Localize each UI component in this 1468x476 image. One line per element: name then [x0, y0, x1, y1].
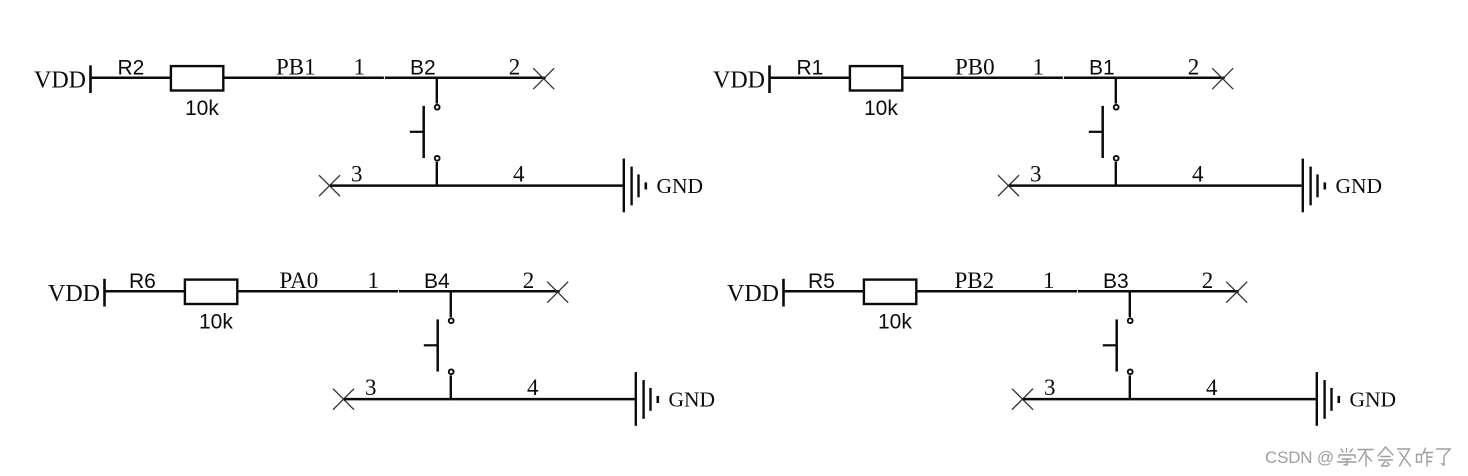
- no-connect X on B3 pin 2: [1226, 282, 1247, 303]
- bottom wire B4 pin 3/4 to GND: [344, 398, 635, 401]
- ground symbol GND (circuit 3): [636, 372, 658, 426]
- svg-text:4: 4: [513, 161, 525, 186]
- watermark CSDN @学不会又咋了: [1265, 447, 1450, 467]
- svg-text:10k: 10k: [199, 310, 233, 333]
- svg-text:B4: B4: [424, 270, 450, 293]
- svg-text:GND: GND: [657, 174, 704, 198]
- svg-text:3: 3: [1030, 161, 1042, 186]
- wire R1 to B1 pin 1, net PB0: [903, 76, 1225, 79]
- svg-text:10k: 10k: [878, 310, 912, 333]
- wire B2 lower terminal to bottom net: [436, 162, 438, 187]
- no-connect X on B2 pin 3: [319, 175, 340, 196]
- wire junction to B4 upper terminal: [450, 291, 452, 317]
- svg-text:4: 4: [527, 375, 539, 400]
- svg-text:2: 2: [509, 54, 521, 79]
- ground symbol GND (circuit 1): [624, 159, 646, 213]
- svg-text:R2: R2: [118, 56, 145, 79]
- svg-text:B2: B2: [410, 56, 436, 79]
- svg-text:R6: R6: [129, 270, 156, 293]
- svg-text:GND: GND: [669, 387, 716, 411]
- svg-text:1: 1: [354, 54, 366, 79]
- wire B3 lower terminal to bottom net: [1129, 375, 1131, 400]
- svg-text:CSDN @: CSDN @: [1265, 448, 1334, 467]
- wire junction to B2 upper terminal: [436, 78, 438, 104]
- svg-text:4: 4: [1192, 161, 1204, 186]
- no-connect X on B4 pin 2: [547, 282, 568, 303]
- power port VDD (circuit 3): [48, 279, 105, 307]
- svg-text:3: 3: [1044, 375, 1056, 400]
- svg-text:VDD: VDD: [713, 67, 765, 93]
- svg-text:PA0: PA0: [280, 268, 319, 293]
- svg-text:VDD: VDD: [727, 281, 779, 307]
- resistor R1 10k: [850, 66, 902, 90]
- wire junction to B3 upper terminal: [1129, 291, 1131, 317]
- pushbutton B3: [1103, 318, 1133, 374]
- svg-text:1: 1: [368, 268, 380, 293]
- svg-text:10k: 10k: [185, 97, 219, 120]
- wire R2 to B2 pin 1, net PB1: [224, 76, 546, 79]
- wire VDD to R6: [106, 290, 185, 293]
- wire VDD to R2: [92, 76, 171, 79]
- no-connect X on B1 pin 2: [1212, 68, 1233, 89]
- no-connect X on B3 pin 3: [1012, 389, 1033, 410]
- ground symbol GND (circuit 2): [1303, 159, 1325, 213]
- pushbutton B4: [424, 318, 454, 374]
- resistor R6 10k: [185, 280, 237, 304]
- svg-text:R5: R5: [808, 270, 835, 293]
- svg-text:2: 2: [523, 268, 535, 293]
- svg-text:1: 1: [1033, 54, 1045, 79]
- svg-text:PB2: PB2: [955, 268, 995, 293]
- bottom wire B2 pin 3/4 to GND: [330, 184, 623, 187]
- resistor R5 10k: [864, 280, 916, 304]
- ground symbol GND (circuit 4): [1317, 372, 1339, 426]
- power port VDD (circuit 1): [34, 65, 91, 93]
- svg-text:VDD: VDD: [48, 281, 100, 307]
- wire R5 to B3 pin 1, net PB2: [917, 290, 1239, 293]
- wire B4 lower terminal to bottom net: [450, 375, 452, 400]
- svg-text:2: 2: [1202, 268, 1214, 293]
- wire R6 to B4 pin 1, net PA0: [238, 290, 560, 293]
- svg-text:PB0: PB0: [955, 54, 995, 79]
- power port VDD (circuit 4): [727, 279, 784, 307]
- no-connect X on B2 pin 2: [533, 68, 554, 89]
- svg-text:GND: GND: [1350, 387, 1397, 411]
- svg-text:R1: R1: [797, 56, 824, 79]
- svg-text:GND: GND: [1336, 174, 1383, 198]
- resistor R2 10k: [171, 66, 223, 90]
- wire junction to B1 upper terminal: [1115, 78, 1117, 104]
- no-connect X on B1 pin 3: [998, 175, 1019, 196]
- wire VDD to R1: [771, 76, 850, 79]
- wire B1 lower terminal to bottom net: [1115, 162, 1117, 187]
- svg-text:1: 1: [1043, 268, 1055, 293]
- svg-text:2: 2: [1188, 54, 1200, 79]
- svg-text:3: 3: [351, 161, 363, 186]
- pushbutton B2: [410, 105, 440, 161]
- svg-text:PB1: PB1: [276, 54, 316, 79]
- svg-text:VDD: VDD: [34, 67, 86, 93]
- svg-text:B1: B1: [1089, 56, 1115, 79]
- pushbutton B1: [1089, 105, 1119, 161]
- svg-text:3: 3: [365, 375, 377, 400]
- wire VDD to R5: [785, 290, 864, 293]
- power port VDD (circuit 2): [713, 65, 770, 93]
- svg-text:10k: 10k: [864, 97, 898, 120]
- no-connect X on B4 pin 3: [333, 389, 354, 410]
- svg-text:4: 4: [1206, 375, 1218, 400]
- bottom wire B3 pin 3/4 to GND: [1023, 398, 1316, 401]
- bottom wire B1 pin 3/4 to GND: [1009, 184, 1302, 187]
- svg-text:B3: B3: [1103, 270, 1129, 293]
